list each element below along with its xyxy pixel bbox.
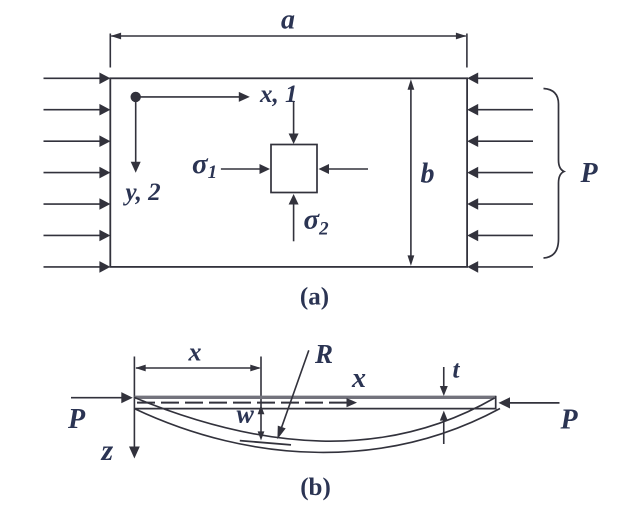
svg-text:(b): (b) xyxy=(300,474,331,501)
svg-text:y, 2: y, 2 xyxy=(123,179,161,206)
load arrow left 1 xyxy=(44,73,111,85)
svg-text:σ2: σ2 xyxy=(304,204,330,240)
svg-text:σ1: σ1 xyxy=(192,148,217,183)
svg-text:z: z xyxy=(101,434,114,467)
right vertical line (x-dim extension / w line) xyxy=(260,357,262,405)
svg-text:x: x xyxy=(351,363,366,394)
dimension line x (b part) xyxy=(135,365,261,372)
origin dot xyxy=(131,92,141,102)
load arrow left 5 xyxy=(44,198,111,210)
load arrow right 2 xyxy=(467,104,533,116)
plate outline (rectangle) xyxy=(110,78,467,267)
plate right end edge xyxy=(495,396,497,410)
arrow into square top xyxy=(289,102,299,145)
load arrow right 1 xyxy=(467,73,533,85)
load arrow left 4 xyxy=(44,167,111,179)
stress element square xyxy=(271,145,317,193)
svg-text:a: a xyxy=(281,5,295,36)
load arrow left 2 xyxy=(44,104,111,116)
svg-text:x, 1: x, 1 xyxy=(259,81,298,108)
t dimension bottom arrow xyxy=(440,411,448,444)
R leader arrow xyxy=(277,350,308,439)
load arrow right 5 xyxy=(467,198,533,210)
dimension line b (vertical) xyxy=(408,79,415,266)
w dimension arrows xyxy=(258,404,265,440)
P arrow left (b) xyxy=(71,392,133,403)
x axis dashed centerline (b) xyxy=(137,398,357,407)
buckled plate lower curve xyxy=(134,409,500,453)
plate chord top edge (thick gray) xyxy=(134,396,495,399)
svg-text:x: x xyxy=(188,338,202,367)
short tangent tick under R arrow xyxy=(240,441,291,445)
load arrow left 3 xyxy=(44,135,111,147)
svg-text:t: t xyxy=(453,357,461,384)
t dimension top arrow xyxy=(440,367,448,396)
svg-text:w: w xyxy=(237,400,255,429)
svg-text:P: P xyxy=(560,405,579,436)
arrow into square bottom (sigma2) xyxy=(289,194,299,241)
load arrow right 3 xyxy=(467,135,533,147)
buckled plate upper curve xyxy=(134,398,494,442)
plate bottom edge xyxy=(134,408,495,410)
arrow into square right xyxy=(319,164,369,174)
load arrow left 7 xyxy=(44,261,111,273)
left vertical line with z axis xyxy=(129,357,140,459)
load arrow right 7 xyxy=(467,261,533,273)
load arrow left 6 xyxy=(44,230,111,242)
y axis arrow (a) xyxy=(131,97,141,173)
svg-text:(a): (a) xyxy=(300,284,329,311)
load arrow right 6 xyxy=(467,230,533,242)
svg-text:b: b xyxy=(421,159,435,190)
svg-text:P: P xyxy=(580,158,599,189)
load arrow right 4 xyxy=(467,167,533,179)
curly brace P (right) xyxy=(544,89,565,259)
svg-text:P: P xyxy=(67,404,86,435)
x axis arrow (a) xyxy=(136,92,250,102)
arrow into square left (sigma1) xyxy=(221,164,270,174)
svg-text:R: R xyxy=(314,339,333,369)
P arrow right (b) xyxy=(499,397,560,408)
dimension line a (top horizontal) xyxy=(110,33,467,68)
